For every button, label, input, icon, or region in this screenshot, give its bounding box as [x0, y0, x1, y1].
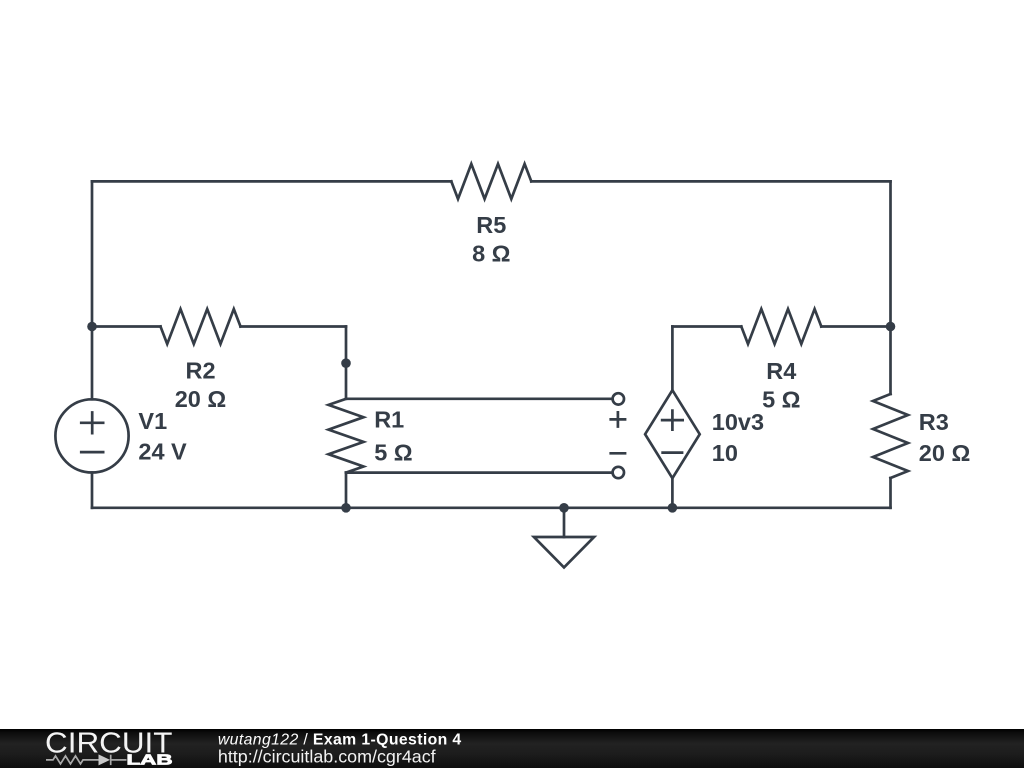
svg-text:10v3: 10v3: [712, 409, 764, 435]
wire port top: [346, 397, 612, 400]
wire bottom rail: [92, 506, 891, 509]
ground: [534, 508, 594, 568]
svg-text:http://circuitlab.com/cgr4acf: http://circuitlab.com/cgr4acf: [218, 747, 436, 767]
wire dependent source top lead: [671, 327, 674, 391]
svg-text:5 Ω: 5 Ω: [762, 387, 800, 413]
svg-text:R5: R5: [476, 212, 506, 238]
resistor R5: [451, 164, 531, 199]
wire right rail upper: [889, 181, 892, 394]
wire dependent source bottom lead: [671, 478, 674, 508]
wire R1 bottom to rail: [345, 473, 348, 508]
wire R4 right lead: [821, 325, 890, 328]
svg-text:R1: R1: [374, 407, 404, 433]
wire left rail: [91, 181, 94, 399]
wire R4 left lead: [672, 325, 741, 328]
svg-text:20 Ω: 20 Ω: [919, 440, 971, 466]
svg-text:R3: R3: [919, 409, 949, 435]
node right rail junction: [886, 322, 896, 332]
wire top-right segment: [531, 180, 890, 183]
wire R3 bottom lead: [889, 478, 892, 508]
svg-text:5 Ω: 5 Ω: [374, 440, 412, 466]
wire R2 left lead: [92, 325, 161, 328]
wire port bottom: [346, 471, 612, 474]
port plus sign: [609, 411, 626, 428]
node R1 bottom junction: [341, 503, 351, 513]
svg-text:24 V: 24 V: [138, 439, 187, 465]
wire R2 right lead: [241, 325, 347, 328]
svg-text:8 Ω: 8 Ω: [472, 241, 510, 267]
terminal bottom port circle: [613, 467, 624, 478]
voltage source V1: [55, 399, 128, 472]
logo wire resistor diode: [46, 755, 127, 765]
node dependent source bottom junction: [668, 503, 678, 513]
node left rail junction: [87, 322, 97, 332]
node mid wire junction: [341, 358, 351, 368]
svg-text:V1: V1: [138, 408, 167, 434]
resistor R4: [741, 309, 821, 344]
resistor R1: [329, 399, 364, 473]
port minus sign: [609, 452, 626, 455]
resistor R3: [873, 394, 908, 478]
svg-text:R2: R2: [185, 357, 215, 383]
svg-text:LAB: LAB: [127, 753, 173, 768]
wire mid vertical: [345, 327, 348, 399]
svg-text:20 Ω: 20 Ω: [175, 386, 227, 412]
dependent source 10v3: [645, 390, 700, 478]
resistor R2: [161, 309, 241, 344]
wire V1 bottom lead: [91, 473, 94, 508]
svg-text:R4: R4: [766, 358, 796, 384]
wire top-left segment: [92, 180, 451, 183]
node ground junction: [559, 503, 569, 513]
terminal top port circle: [613, 393, 624, 404]
footer bar: [0, 729, 1024, 768]
svg-text:10: 10: [712, 440, 738, 466]
